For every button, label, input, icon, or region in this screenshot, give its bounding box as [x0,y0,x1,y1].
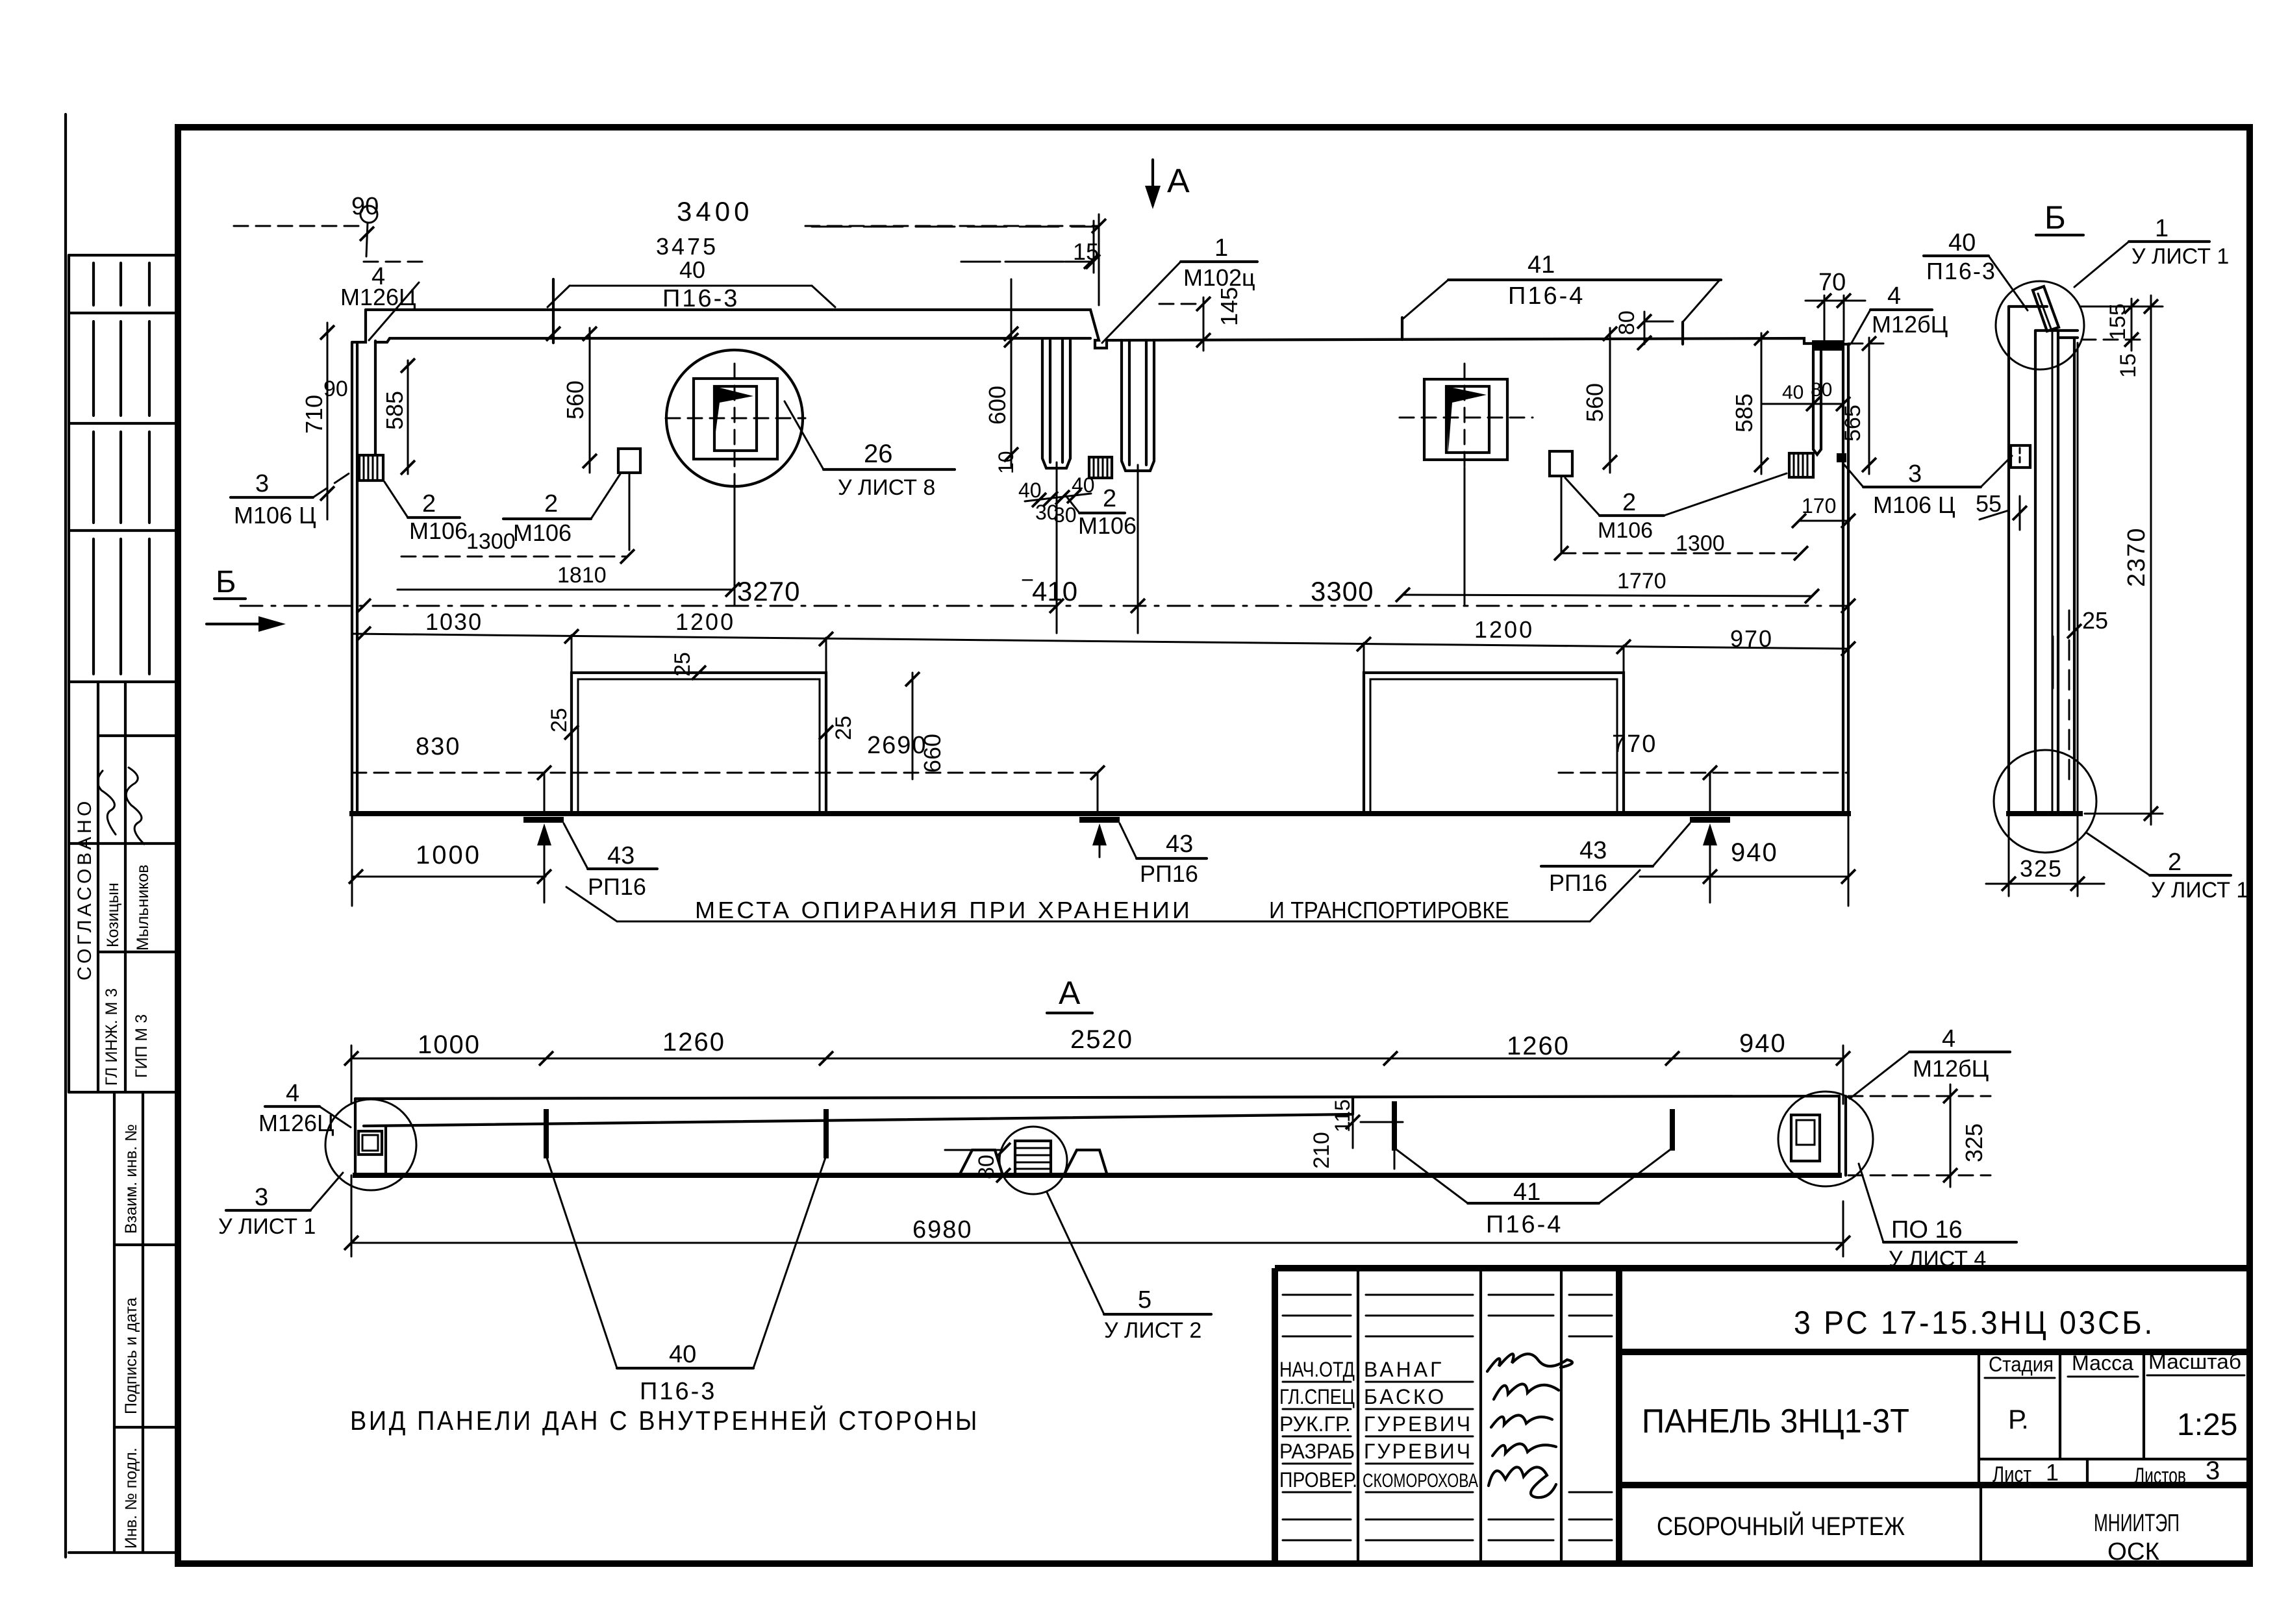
svg-text:СКОМОРОХОВА: СКОМОРОХОВА [1363,1470,1478,1492]
left signature table [1272,1268,1278,1564]
svg-text:4: 4 [1887,282,1901,310]
М10б hatched block between slots [1089,457,1112,478]
svg-text:5: 5 [1138,1286,1151,1314]
middle slot 1 [1042,340,1070,468]
svg-text:А: А [1059,975,1081,1011]
window edge extensions up to dim row [571,635,573,673]
svg-text:П16-4: П16-4 [1508,282,1585,310]
inner face line left half [375,338,1090,342]
80 dim vent [945,1143,1011,1182]
svg-text:М106 Ц: М106 Ц [1873,492,1955,518]
М12бЦ plate bar top right [1812,340,1844,351]
565 dim right [1841,336,1883,474]
325 dim bottom [1986,814,2104,896]
right inner channel [1812,351,1815,449]
svg-text:ГЛ ИНЖ. М 3: ГЛ ИНЖ. М 3 [103,988,121,1086]
svg-text:25: 25 [670,652,695,677]
svg-text:70: 70 [1818,269,1846,296]
svg-text:770: 770 [1612,731,1657,758]
40 П16-3 label [1924,229,2028,310]
40 П16-3 callout [546,256,1018,466]
svg-text:2520: 2520 [1070,1025,1133,1054]
svg-text:ВИД ПАНЕЛИ ДАН С ВНУТРЕННЕЙ СТ: ВИД ПАНЕЛИ ДАН С ВНУТРЕННЕЙ СТОРОНЫ [350,1405,979,1436]
ПО 16 У ЛИСТ 4 label [1859,1164,2017,1271]
svg-text:90: 90 [323,377,348,401]
embedded square detail 1 (circled) [666,350,805,605]
2 М106 label middle [1065,485,1137,539]
svg-text:4: 4 [286,1080,299,1107]
svg-text:Масса: Масса [2072,1351,2133,1375]
41 П16-4 bracket [1394,1148,1672,1238]
svg-text:4: 4 [1942,1025,1955,1053]
svg-text:М106: М106 [409,518,468,544]
svg-text:У ЛИСТ 2: У ЛИСТ 2 [1104,1318,1201,1343]
170 dim right [1792,494,1855,528]
svg-text:Б: Б [2044,199,2066,236]
svg-text:ГЛ.СПЕЦ: ГЛ.СПЕЦ [1279,1385,1355,1408]
svg-text:А: А [1167,162,1190,200]
svg-text:СОГЛАСОВАНО: СОГЛАСОВАНО [74,798,95,981]
5 У ЛИСТ 2 label [1047,1192,1211,1343]
svg-text:ПРОВЕР.: ПРОВЕР. [1279,1468,1357,1492]
svg-text:У ЛИСТ 1: У ЛИСТ 1 [2131,244,2229,269]
svg-text:40: 40 [1948,229,1976,256]
svg-text:41: 41 [1527,251,1555,279]
svg-text:Стадия: Стадия [1989,1353,2054,1376]
325 dim right [1848,1084,1991,1187]
svg-text:30: 30 [1053,503,1077,527]
РП16 labels [564,823,657,900]
svg-text:155: 155 [2106,303,2130,340]
М106 anchor square right [1550,451,1572,476]
svg-text:НАЧ.ОТД: НАЧ.ОТД [1279,1358,1355,1381]
2 У ЛИСТ 1 label bottom [2086,832,2248,903]
svg-text:3: 3 [1908,460,1922,488]
svg-text:П16-3: П16-3 [640,1378,716,1405]
560 dim right [1581,327,1617,473]
left trim line [64,114,67,1557]
svg-text:80: 80 [1811,379,1832,401]
svg-text:М12бЦ: М12бЦ [1913,1055,1989,1082]
svg-text:П16-4: П16-4 [1486,1211,1563,1238]
svg-text:Инв. № подл.: Инв. № подл. [122,1447,140,1549]
115 / 210 dims [1309,1097,1403,1169]
Б arrow left [207,565,286,632]
svg-text:1: 1 [2155,215,2169,242]
2 М106 label 1 [384,482,468,544]
585 dim left [381,358,415,475]
svg-text:Козицын: Козицын [104,882,122,947]
3 М106Ц label left [231,469,356,529]
right corner anchor [1791,1115,1820,1161]
svg-text:РАЗРАБ: РАЗРАБ [1279,1440,1355,1463]
svg-text:МЕСТА ОПИРАНИЯ ПРИ ХРАНЕНИИ: МЕСТА ОПИРАНИЯ ПРИ ХРАНЕНИИ [695,897,1192,923]
window 2 [1364,673,1624,814]
svg-text:210: 210 [1309,1132,1334,1169]
window 1 [572,673,826,814]
svg-text:43: 43 [1579,837,1607,864]
600 dim slots [984,333,1018,474]
left edge double line [351,342,353,814]
80 step dim right [1615,310,1673,350]
svg-text:1: 1 [1214,234,1228,262]
svg-text:940: 940 [1731,838,1778,867]
41 П16-4 callout [1402,251,1721,344]
svg-text:3475: 3475 [656,233,718,260]
svg-text:ПО 16: ПО 16 [1891,1216,1963,1243]
svg-text:Масштаб: Масштаб [2148,1350,2241,1373]
svg-text:1810: 1810 [557,563,607,588]
560 dim left [562,327,597,473]
svg-text:26: 26 [864,440,893,468]
40 80 small dims right [1761,379,1850,411]
svg-text:2: 2 [2168,849,2181,876]
40 П16-3 bracket [546,1156,826,1405]
svg-text:2: 2 [544,490,558,518]
svg-text:80: 80 [1615,310,1639,335]
6980 dim [344,1175,1850,1256]
A arrow top [1145,160,1190,209]
svg-text:М102ц: М102ц [1183,264,1255,291]
svg-text:1:25: 1:25 [2177,1408,2237,1442]
svg-text:10: 10 [994,451,1018,474]
svg-text:3 РС 17-15.3НЦ 03СБ.: 3 РС 17-15.3НЦ 03СБ. [1794,1305,2155,1341]
svg-text:115: 115 [1331,1099,1354,1132]
svg-text:3: 3 [255,470,269,497]
3 М106Ц label right [1844,456,2012,518]
svg-text:Подпись и дата: Подпись и дата [122,1297,140,1414]
slot centre extensions down to 410 row [1056,462,1058,633]
710 dim [301,323,334,519]
25 dim [2053,607,2108,688]
svg-text:25: 25 [547,708,572,732]
top edge right half [1113,338,1812,344]
svg-text:2: 2 [1103,485,1116,512]
М106 anchor square left [618,449,640,473]
svg-text:43: 43 [607,842,635,869]
2 М106 label 2 [503,474,620,546]
body [2007,306,2010,814]
svg-text:ГУРЕВИЧ: ГУРЕВИЧ [1364,1412,1472,1436]
svg-text:565: 565 [1841,405,1865,442]
svg-text:830: 830 [416,733,460,760]
svg-text:585: 585 [1731,394,1757,432]
70 dim right [1805,269,1865,340]
left corner anchor [358,1131,382,1155]
svg-text:Взаим. инв. №: Взаим. инв. № [122,1124,140,1234]
tilted П16-3 slab [2033,286,2059,331]
svg-text:40: 40 [679,256,705,283]
svg-text:М12бЦ: М12бЦ [1872,311,1948,338]
svg-text:РП16: РП16 [1549,869,1607,896]
svg-text:‾410: ‾410 [1022,576,1077,606]
svg-text:РП16: РП16 [588,873,646,900]
П16-3 ticks [544,1112,549,1156]
svg-text:600: 600 [984,386,1011,425]
svg-text:П16-3: П16-3 [662,285,739,312]
top edge upper (П16-3 raised) [366,310,1113,348]
svg-text:560: 560 [1581,383,1608,422]
vent block detail [959,1127,1107,1194]
svg-text:ОСК: ОСК [2107,1538,2159,1566]
svg-text:1300: 1300 [466,529,516,554]
middle slot 2 [1122,340,1154,471]
15 dim at cut [812,227,1099,269]
4 М12бЦ label left [258,1080,351,1136]
svg-text:2: 2 [1622,489,1636,516]
3 У ЛИСТ 1 label left [218,1173,343,1239]
svg-text:3400: 3400 [677,196,753,227]
sidebar table [69,255,178,1553]
svg-text:1000: 1000 [418,1031,481,1059]
embedded square detail 2 [1400,364,1533,605]
bottom edge [352,811,1848,816]
svg-text:1260: 1260 [1507,1032,1570,1060]
anchor on left edge [2011,445,2030,468]
svg-text:ПАНЕЛЬ 3НЦ1-3Т: ПАНЕЛЬ 3НЦ1-3Т [1642,1403,1909,1440]
svg-text:ГУРЕВИЧ: ГУРЕВИЧ [1364,1440,1472,1463]
svg-text:У ЛИСТ 8: У ЛИСТ 8 [838,475,935,500]
svg-text:3300: 3300 [1311,576,1374,606]
svg-text:ВАНАГ: ВАНАГ [1364,1358,1444,1381]
svg-text:6980: 6980 [912,1216,973,1243]
svg-text:У ЛИСТ 1: У ЛИСТ 1 [2151,878,2248,903]
svg-text:25: 25 [831,716,856,740]
2370 dim [2080,295,2163,825]
small 40 30 dims under slot [1018,473,1095,527]
right edge double line [1842,344,1844,814]
svg-text:М106: М106 [1598,518,1653,543]
90 circle marker [351,193,379,256]
1 У ЛИСТ 1 label [2074,215,2229,287]
leader 26 У ЛИСТ 8 [785,401,955,500]
svg-text:170: 170 [1802,494,1836,518]
svg-text:325: 325 [2020,855,2063,882]
top dim row 1000/1260/2520/1260/940 [351,1058,1843,1060]
svg-text:1000: 1000 [416,841,481,869]
support bars [523,817,564,823]
svg-text:1030: 1030 [425,608,483,635]
585 dim right [1731,331,1768,474]
svg-text:1770: 1770 [1617,569,1666,593]
svg-text:15: 15 [2116,353,2141,378]
section body [355,1096,1839,1099]
4 М12бЦ label right [1850,1025,2010,1099]
svg-text:2370: 2370 [2123,527,2150,587]
svg-text:У ЛИСТ 1: У ЛИСТ 1 [218,1214,316,1239]
section cut line A [1098,214,1100,305]
145 dim [1159,287,1242,351]
svg-text:Б: Б [216,565,236,599]
svg-text:Мыльников: Мыльников [134,864,152,951]
svg-text:1200: 1200 [675,608,735,635]
svg-text:РУК.ГР.: РУК.ГР. [1279,1412,1351,1436]
svg-text:Р.: Р. [2008,1404,2029,1434]
svg-text:970: 970 [1730,625,1773,652]
svg-text:80: 80 [974,1155,999,1179]
top-left step [352,310,366,342]
svg-text:М106 Ц: М106 Ц [234,502,316,529]
svg-text:40: 40 [1018,479,1042,502]
svg-text:1300: 1300 [1676,531,1725,556]
svg-text:МНИИТЭП: МНИИТЭП [2094,1510,2180,1537]
svg-text:М106: М106 [1078,512,1137,539]
svg-text:БАСКО: БАСКО [1364,1385,1446,1408]
155 / 15 dims [2081,299,2143,378]
55 dim [1976,490,2027,530]
right М106ц hatched anchor [1789,453,1846,477]
П16-4 ticks [1392,1104,1397,1148]
svg-text:25: 25 [2082,607,2108,634]
svg-text:М106: М106 [513,519,572,546]
1000 / 940 row [352,876,546,878]
svg-text:РП16: РП16 [1140,860,1198,887]
svg-text:М126Ц: М126Ц [258,1110,334,1136]
svg-text:1260: 1260 [662,1028,725,1056]
4 М12бЦ right [1852,282,1948,343]
svg-text:П16-3: П16-3 [1926,258,1996,284]
svg-text:3270: 3270 [737,576,800,606]
svg-text:43: 43 [1166,831,1193,858]
svg-text:560: 560 [562,381,588,419]
svg-text:3: 3 [255,1184,268,1211]
svg-text:145: 145 [1216,287,1242,326]
1 М102ц label [1102,234,1257,343]
svg-text:940: 940 [1739,1029,1787,1058]
svg-text:2690: 2690 [867,732,927,759]
svg-text:И ТРАНСПОРТИРОВКЕ: И ТРАНСПОРТИРОВКЕ [1269,897,1509,923]
svg-text:41: 41 [1513,1179,1540,1206]
svg-text:1200: 1200 [1474,616,1534,643]
svg-text:325: 325 [1961,1123,1987,1162]
svg-text:1: 1 [2046,1459,2059,1486]
svg-text:ГИП М 3: ГИП М 3 [132,1014,151,1078]
svg-text:3: 3 [2206,1456,2220,1485]
svg-text:40: 40 [1782,382,1804,403]
left М106ц hatched anchor [359,455,383,481]
signatures [1487,1354,1572,1371]
svg-text:40: 40 [669,1341,696,1368]
svg-text:2: 2 [422,490,436,518]
svg-text:15: 15 [1073,238,1099,265]
2 М106 label right [1565,473,1787,543]
svg-text:585: 585 [381,391,408,430]
4 М12бЦ label top left [340,263,419,340]
svg-text:М126Ц: М126Ц [340,284,416,310]
circles [1996,281,2084,369]
svg-text:СБОРОЧНЫЙ ЧЕРТЕЖ: СБОРОЧНЫЙ ЧЕРТЕЖ [1657,1511,1905,1541]
